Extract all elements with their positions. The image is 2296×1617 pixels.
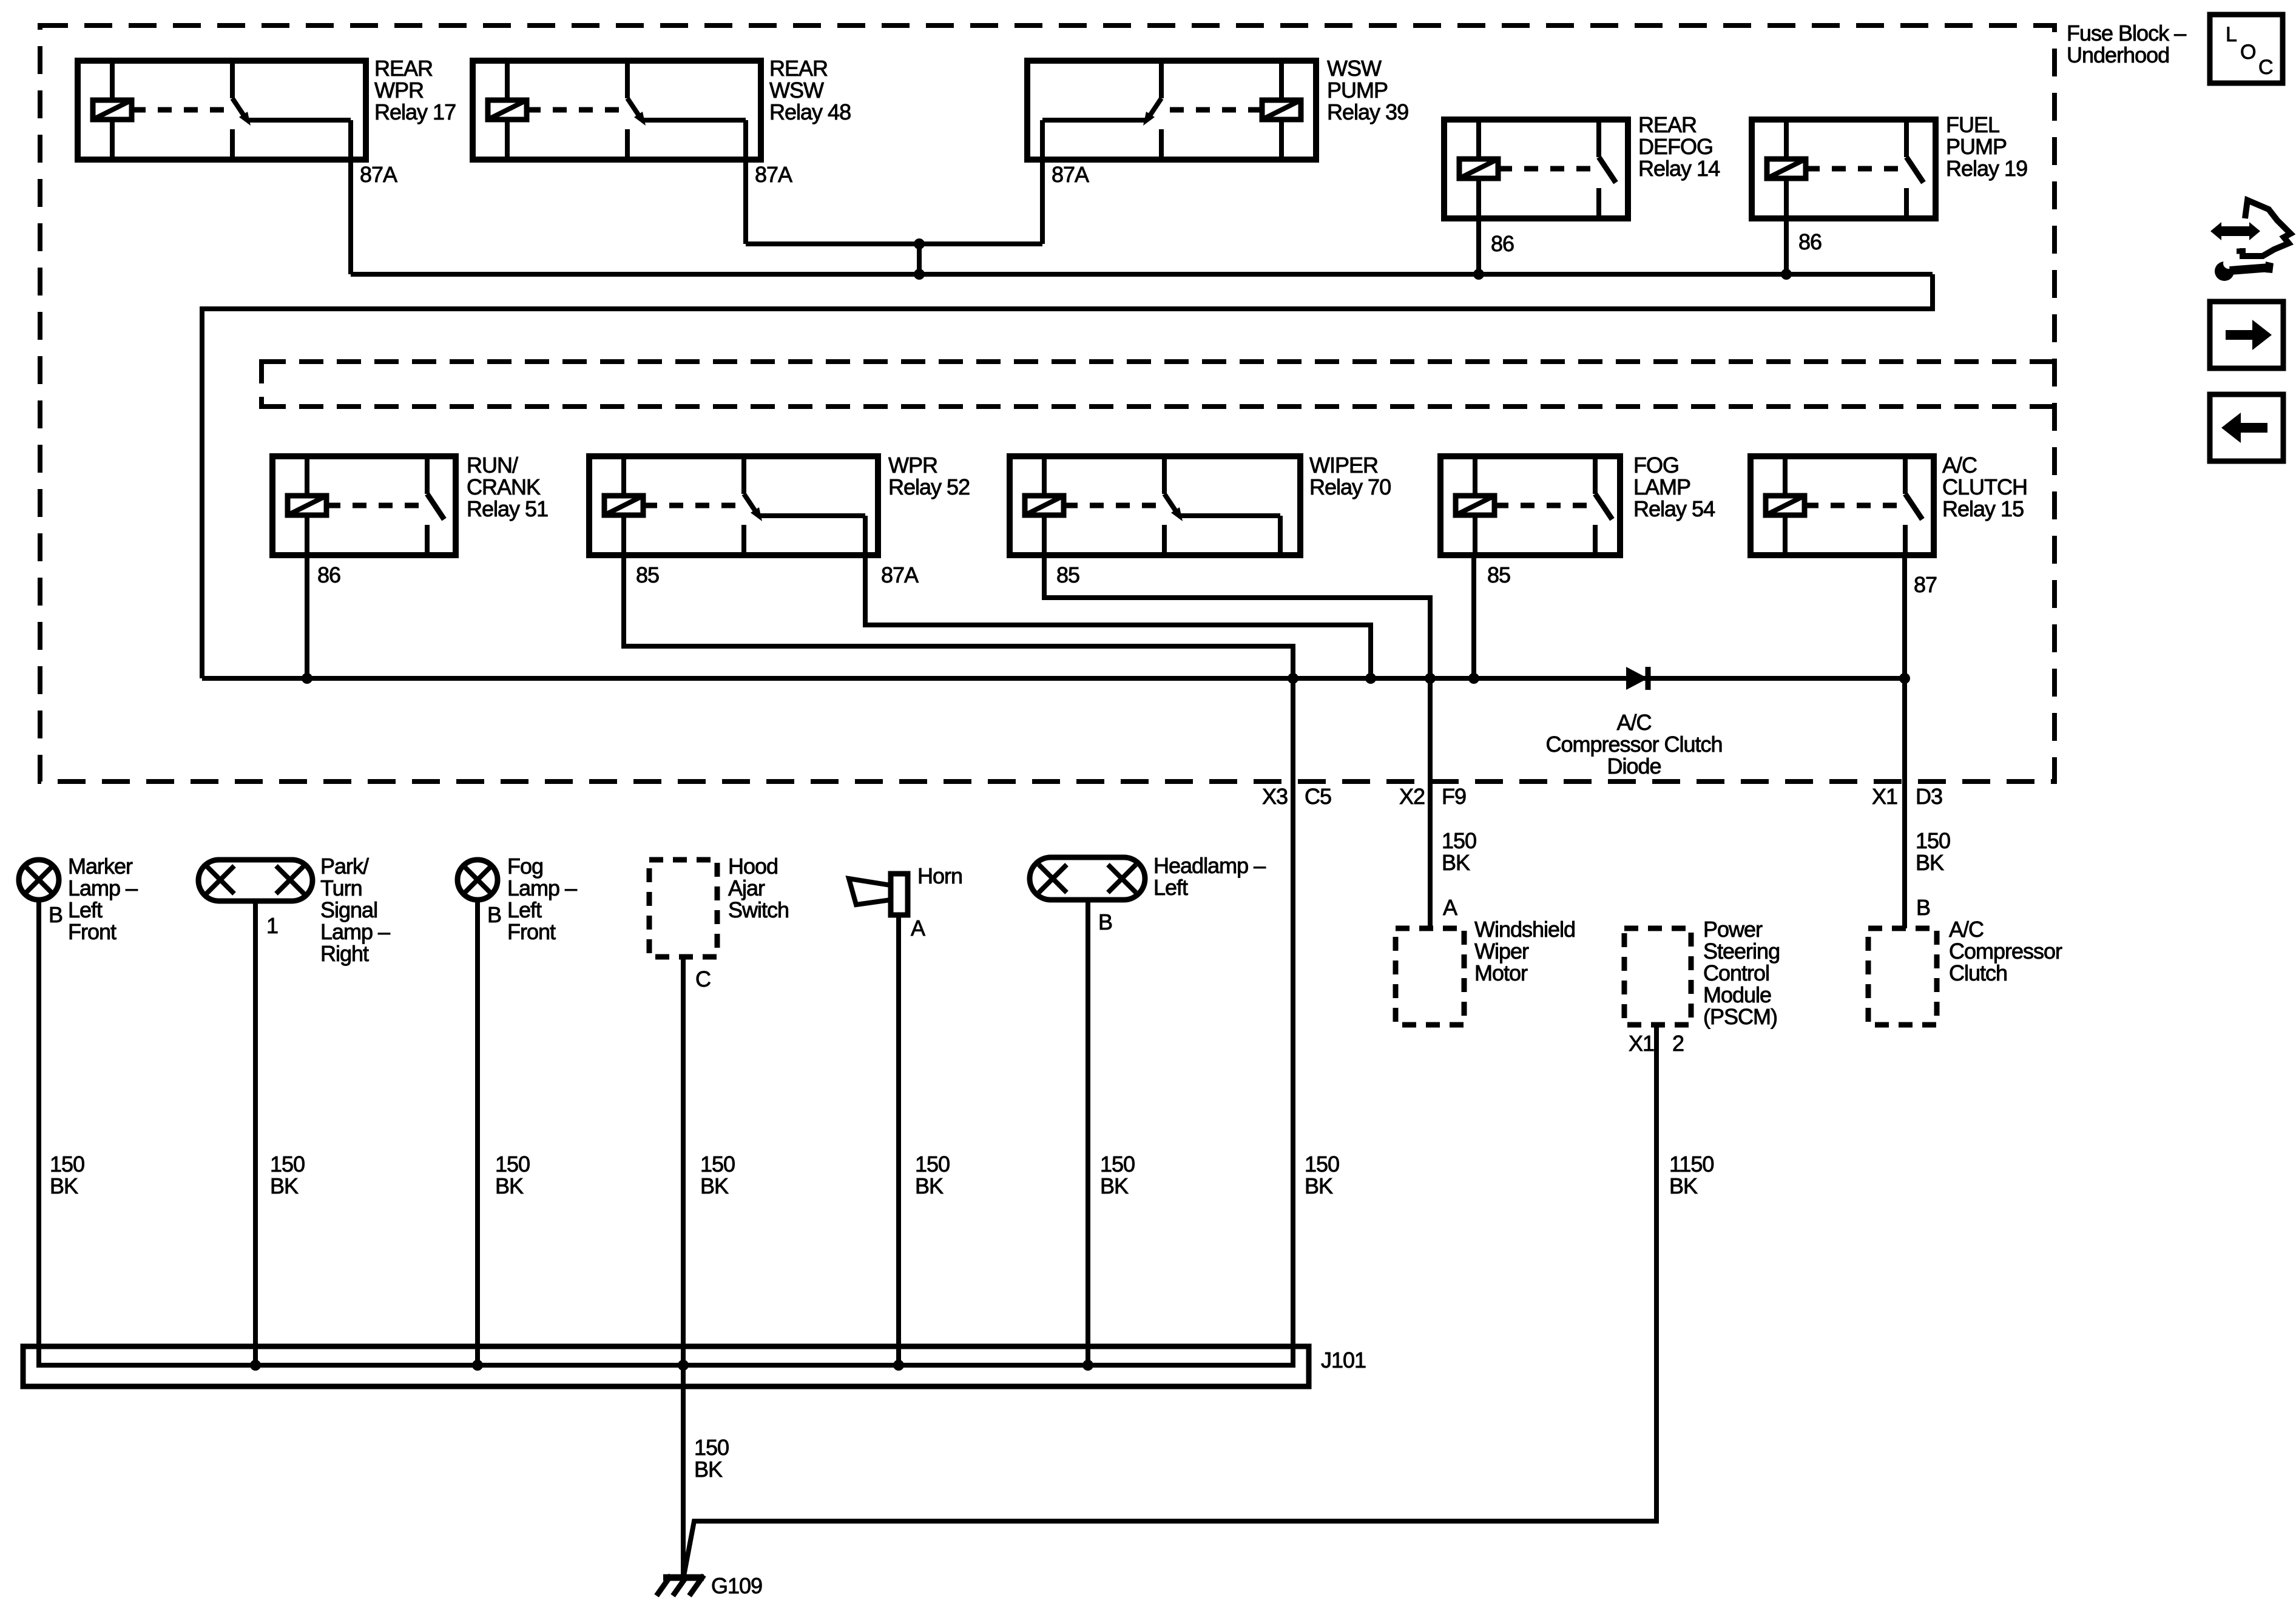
relay K48 REAR WSW Relay 48 — [473, 61, 761, 160]
svg-text:X1: X1 — [1629, 1031, 1654, 1056]
svg-text:J101: J101 — [1321, 1348, 1366, 1372]
wire headlamp to J101 — [1086, 900, 1090, 1365]
svg-text:86: 86 — [317, 562, 340, 587]
relay K14 REAR DEFOG Relay 14 — [1444, 120, 1628, 218]
junction fog lamp on J101 bus — [472, 1360, 483, 1371]
junction relay19 86 on bus — [1781, 269, 1792, 280]
icon hood-open with wrench — [2210, 200, 2291, 281]
icon arrow left box — [2210, 394, 2283, 461]
horn — [849, 874, 908, 915]
module windshield wiper motor (dashed box) — [1396, 928, 1464, 1025]
junction X3 wire on main bus — [1288, 673, 1298, 684]
icon LOC box — [2210, 15, 2283, 83]
svg-text:F9: F9 — [1442, 784, 1466, 809]
svg-text:85: 85 — [1487, 562, 1510, 587]
svg-text:B: B — [1916, 895, 1930, 920]
junction relay54 85 on main bus — [1468, 673, 1479, 684]
svg-text:Fuse Block –Underhood: Fuse Block –Underhood — [2067, 21, 2186, 67]
switch hood ajar switch (dashed box) — [649, 860, 717, 957]
svg-text:X3: X3 — [1262, 784, 1288, 809]
wire relay17 87A down — [348, 160, 353, 274]
lamp marker lamp left front — [19, 860, 59, 900]
wire relay14 pin86 down — [1476, 218, 1481, 274]
svg-text:Horn: Horn — [917, 863, 962, 888]
load A/C compressor clutch (dashed box) — [1868, 928, 1937, 1025]
svg-text:87A: 87A — [881, 562, 919, 587]
wire PSCM ground return to G109 — [684, 1025, 1656, 1576]
wire relay70 pin85 to X2-F9 to wiper motor — [1044, 555, 1430, 928]
wire relay39 87A down — [1040, 160, 1045, 244]
inner dashed line upper — [262, 359, 2052, 364]
svg-text:G109: G109 — [711, 1573, 762, 1598]
relay K19 FUEL PUMP Relay 19 — [1752, 120, 1936, 218]
svg-text:A: A — [911, 916, 925, 940]
fuse block outer dashed border — [40, 25, 2055, 781]
junction on upper bus — [914, 269, 925, 280]
relay K17 REAR WPR Relay 17 — [78, 61, 366, 160]
wire fog lamp to J101 — [475, 900, 480, 1365]
relay K52 WPR Relay 52 — [589, 456, 878, 555]
ground G109 — [657, 1575, 704, 1596]
wire relay48 87A down — [743, 160, 748, 244]
wire relay19 pin86 down — [1784, 218, 1789, 274]
svg-text:B: B — [49, 902, 62, 927]
svg-text:B: B — [487, 902, 501, 927]
wire relay15 pin87 to X1-D3 to A/C compressor clutch — [1902, 555, 1907, 928]
svg-text:87A: 87A — [1052, 162, 1089, 187]
wire horn to J101 — [896, 915, 901, 1365]
svg-text:86: 86 — [1491, 231, 1514, 256]
wire hood ajar switch to ground G109 — [681, 957, 686, 1576]
svg-text:C: C — [2258, 56, 2273, 79]
svg-text:B: B — [1098, 910, 1112, 934]
junction relay51 86 on main bus — [302, 673, 312, 684]
svg-text:1: 1 — [266, 913, 278, 938]
svg-text:86: 86 — [1798, 229, 1822, 254]
lamp park/turn signal lamp right — [198, 860, 312, 901]
splice pack J101 box — [23, 1346, 1309, 1386]
junction relay15 87 on main bus — [1899, 673, 1910, 684]
svg-text:87: 87 — [1914, 572, 1937, 597]
wire park/turn lamp to J101 — [253, 901, 258, 1365]
module power steering control module PSCM (dashed box) — [1624, 928, 1691, 1025]
wire relay52 pin87A to main bus — [865, 555, 1371, 678]
junction hood wire on J101 bus — [678, 1360, 689, 1371]
lamp fog lamp left front — [458, 860, 498, 900]
wire bus U-turn and left drop — [202, 274, 1933, 678]
svg-text:D3: D3 — [1916, 784, 1942, 809]
svg-text:O: O — [2240, 41, 2255, 64]
inner dashed left edge — [259, 359, 264, 409]
relay K70 WIPER Relay 70 — [1010, 456, 1300, 555]
svg-text:C: C — [695, 967, 711, 991]
junction relay14 86 on bus — [1473, 269, 1484, 280]
svg-text:X1: X1 — [1872, 784, 1897, 809]
junction relay52 87A on main bus — [1365, 673, 1376, 684]
svg-text:87A: 87A — [755, 162, 792, 187]
junction horn on J101 bus — [893, 1360, 904, 1371]
svg-text:87A: 87A — [360, 162, 397, 187]
wire relay52 pin85 to X3-C5 to J101 bus to marker lamp — [39, 555, 1293, 1365]
svg-text:2: 2 — [1672, 1031, 1684, 1056]
junction headlamp on J101 bus — [1082, 1360, 1093, 1371]
junction park/turn on J101 bus — [250, 1360, 261, 1371]
wire upper ground bus — [351, 272, 1933, 277]
relay K51 RUN/CRANK Relay 51 — [272, 456, 456, 555]
junction 87A segment — [914, 238, 925, 249]
relay K39 WSW PUMP Relay 39 — [1027, 61, 1316, 160]
diode A/C compressor clutch diode — [1626, 667, 1648, 690]
wire relay51 pin86 down — [305, 555, 309, 678]
svg-text:85: 85 — [636, 562, 659, 587]
lamp headlamp left — [1030, 857, 1145, 900]
svg-text:X2: X2 — [1399, 784, 1425, 809]
icon arrow right box — [2210, 302, 2283, 368]
svg-text:A: A — [1443, 895, 1457, 920]
relay K54 FOG LAMP Relay 54 — [1440, 456, 1620, 555]
inner dashed line lower — [262, 404, 2052, 409]
wire relay54 pin85 down — [1471, 555, 1476, 678]
svg-text:L: L — [2226, 23, 2237, 46]
svg-text:C5: C5 — [1305, 784, 1331, 809]
junction X2 wire on main bus — [1425, 673, 1436, 684]
wire junction drop — [917, 244, 922, 274]
relay K15 A/C CLUTCH Relay 15 — [1751, 456, 1934, 555]
svg-text:85: 85 — [1056, 562, 1079, 587]
wire main ground bus — [202, 676, 1905, 681]
wire between relay48 and relay39 87A — [746, 241, 1042, 246]
